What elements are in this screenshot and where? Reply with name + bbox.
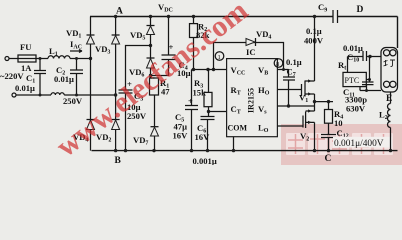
- wire bridge leg2: [115, 17, 117, 151]
- pin 1 circle: [215, 52, 224, 61]
- wire valley-fill leg: [150, 17, 152, 79]
- svg-text:0.01μ: 0.01μ: [15, 83, 35, 93]
- wire VS: [277, 105, 314, 107]
- capacitor C6: [201, 112, 215, 151]
- wire VCC supply: [192, 69, 227, 71]
- capacitor C11 3300p 630V: [362, 82, 374, 91]
- wire midpoint: [315, 101, 334, 103]
- svg-text:16V: 16V: [195, 132, 211, 142]
- wire COM to ground rail: [233, 137, 235, 151]
- wire upper input: [9, 58, 18, 60]
- diode VD5: [147, 25, 155, 27]
- resistor R1 47: [151, 76, 155, 151]
- capacitor C12 0.001u/400V: [321, 135, 336, 151]
- svg-text:D: D: [357, 5, 364, 15]
- capacitor C9 0.1u 400V (series in rail): [333, 10, 338, 23]
- pin 8 circle: [274, 59, 283, 68]
- wire VB: [277, 69, 288, 71]
- capacitor C5 47u 16V: [185, 70, 198, 151]
- capacitor C4 10u: [151, 17, 176, 76]
- capacitor C10 0.01u: [363, 51, 367, 61]
- svg-text:PTC: PTC: [345, 76, 360, 85]
- svg-text:0.1μ: 0.1μ: [286, 57, 302, 67]
- transistor V1: [302, 81, 315, 97]
- resistor R3 15k: [208, 70, 210, 112]
- capacitor C7 0.1u: [283, 70, 295, 107]
- diode VD6: [147, 57, 155, 59]
- svg-text:0.01μ: 0.01μ: [54, 74, 74, 84]
- svg-text:400V: 400V: [304, 36, 324, 46]
- svg-text:15k: 15k: [193, 88, 207, 98]
- lamp tube: [381, 48, 398, 93]
- wire lower input: [16, 94, 51, 96]
- svg-text:0.1μ: 0.1μ: [306, 26, 322, 36]
- svg-text:8: 8: [276, 61, 279, 68]
- capacitor C2: [70, 59, 83, 96]
- diode VD4: [87, 119, 95, 121]
- svg-text:FU: FU: [20, 42, 31, 52]
- svg-text:~220V: ~220V: [0, 71, 24, 81]
- svg-text:1: 1: [218, 54, 221, 61]
- svg-text:630V: 630V: [346, 104, 366, 114]
- wire PTC right: [366, 79, 369, 81]
- watermark pink box: [281, 124, 402, 165]
- diode VD1: [87, 34, 95, 36]
- svg-text:B: B: [115, 156, 122, 165]
- svg-text:0.001μ/400V: 0.001μ/400V: [334, 139, 384, 149]
- inductor L1 bottom winding: [51, 93, 64, 95]
- wire branch to C3: [126, 46, 151, 91]
- wire right edge to lamp: [397, 17, 399, 49]
- wire lamp bottom lead: [390, 92, 392, 104]
- inductor L2: [388, 104, 391, 128]
- diode VD3: [112, 34, 120, 36]
- wire bottom rail: [92, 150, 398, 152]
- svg-text:A: A: [116, 7, 123, 17]
- svg-text:+: +: [188, 96, 193, 106]
- terminal upper input: [5, 57, 9, 61]
- thermistor Rt PTC: [343, 72, 366, 86]
- wire to bridge: [70, 58, 91, 60]
- diode VD2: [112, 119, 120, 121]
- svg-text:E: E: [386, 94, 392, 104]
- svg-text:10: 10: [334, 118, 343, 128]
- resistor R4 10: [328, 102, 330, 135]
- lamp glyph: [384, 60, 396, 67]
- node A: [114, 15, 117, 18]
- svg-text:250V: 250V: [63, 96, 83, 106]
- wire lamp lower tap: [360, 90, 381, 92]
- wire chain vertical: [369, 57, 371, 83]
- transistor V2: [303, 111, 315, 128]
- terminal lower input: [12, 93, 16, 97]
- wire lamp upper tap chain: [348, 56, 382, 58]
- wire top rail VDC: [90, 16, 398, 18]
- fuse FU 1A: [18, 55, 36, 62]
- wire bridge leg1: [90, 17, 92, 151]
- svg-text:0.001μ: 0.001μ: [193, 156, 217, 165]
- svg-text:IR2155: IR2155: [247, 88, 256, 113]
- inductor L1 top winding: [48, 56, 70, 59]
- capacitor C1: [34, 59, 46, 96]
- wire L2 to rail: [390, 128, 392, 151]
- svg-text:C: C: [325, 154, 332, 164]
- wire PTC left: [347, 57, 349, 73]
- op-amp U1 IC IR2155 box: [227, 59, 278, 137]
- diode VD4 bootstrap: [214, 43, 284, 70]
- resistor R2 82k: [193, 17, 195, 70]
- svg-text:16V: 16V: [173, 131, 189, 141]
- wire LO: [277, 125, 303, 127]
- wire lower to bridge leg2: [64, 94, 115, 96]
- capacitor C3 10u 250V: [119, 90, 133, 151]
- svg-text:COM: COM: [228, 124, 248, 133]
- diode VD7: [151, 126, 159, 128]
- wire CT: [209, 111, 227, 113]
- svg-text:IC: IC: [246, 47, 256, 57]
- wire HO: [277, 89, 301, 91]
